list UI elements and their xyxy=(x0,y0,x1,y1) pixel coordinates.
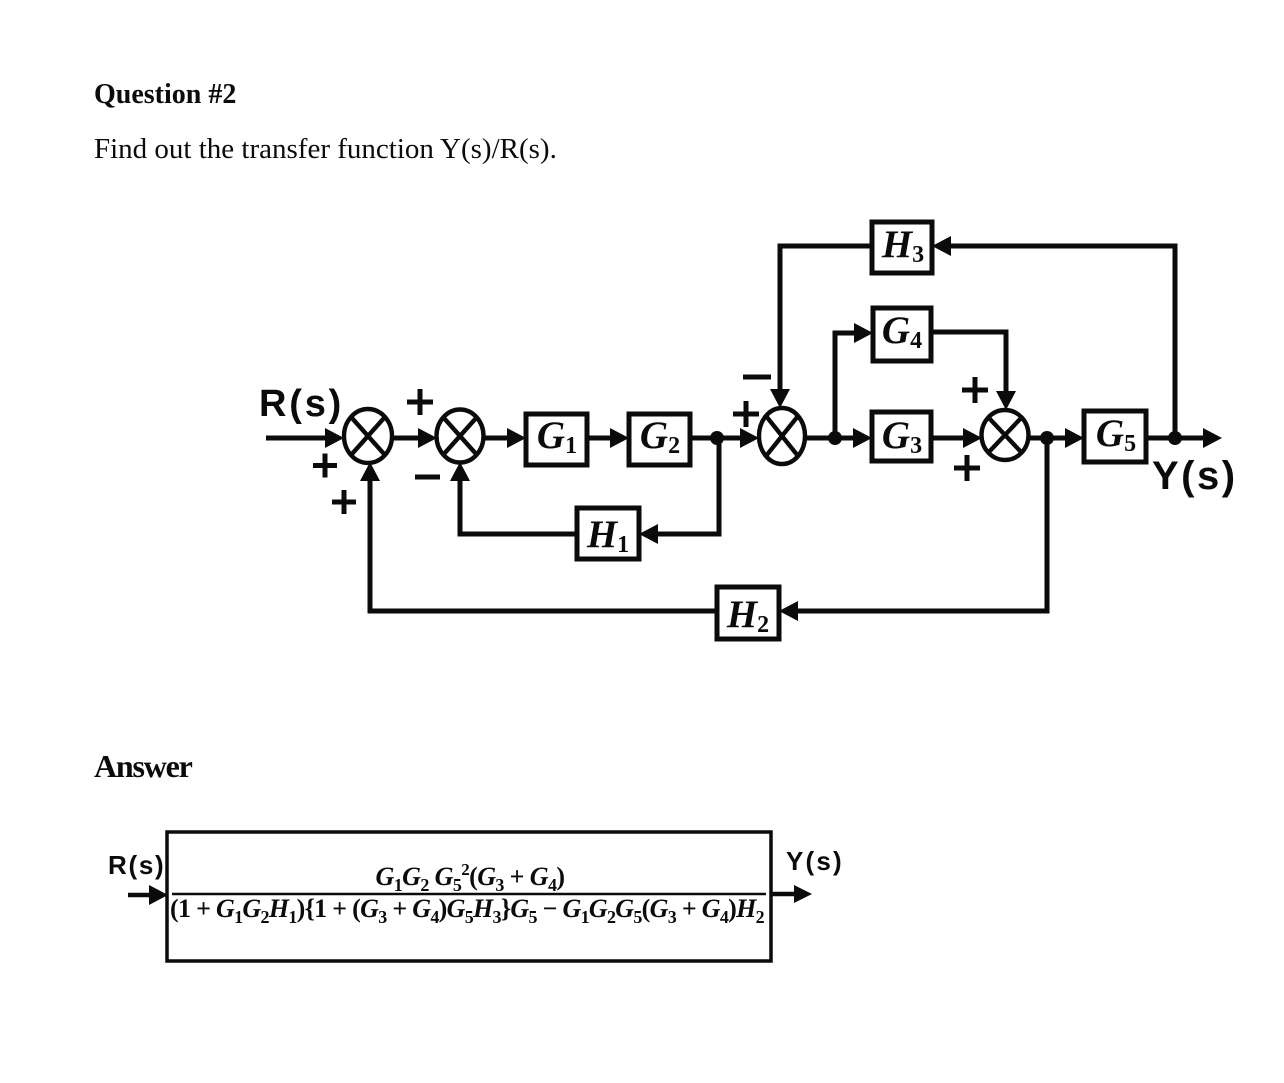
wire G5 to output xyxy=(1146,428,1222,448)
sign plus (G4 input into S4) xyxy=(962,377,988,403)
sign minus (H1 feedback into S2) xyxy=(415,475,440,480)
svg-text:Y(s): Y(s) xyxy=(1152,454,1238,498)
svg-text:Find out the transfer function: Find out the transfer function Y(s)/R(s)… xyxy=(94,133,557,165)
sign plus (G3 input into S4) xyxy=(954,455,980,481)
block G2 xyxy=(629,414,690,465)
sign plus (S1 output into S2) xyxy=(407,389,433,415)
block H3 xyxy=(872,222,932,273)
wire input to summing junction S1 xyxy=(266,428,344,448)
node after S4 xyxy=(1040,431,1054,445)
block G4 xyxy=(873,308,931,361)
svg-text:Question #2: Question #2 xyxy=(94,79,236,110)
wire G2 to S3 xyxy=(690,428,759,448)
wire H1 output up into S2 xyxy=(450,462,577,534)
svg-text:Answer: Answer xyxy=(94,748,193,784)
wire S2 to G1 xyxy=(484,428,526,448)
block G5 xyxy=(1084,411,1146,462)
wire S4 to G5 xyxy=(1028,428,1084,448)
node after S3 xyxy=(828,431,842,445)
sign minus (H3 feedback into S3) xyxy=(743,375,771,380)
answer transfer-function box xyxy=(167,832,771,961)
wire node after G2 down into H1 xyxy=(639,438,719,544)
wire S3 to G3 xyxy=(805,428,872,448)
block H2 xyxy=(717,587,779,639)
block G1 xyxy=(526,414,587,465)
fraction bar xyxy=(172,893,766,896)
answer output arrow xyxy=(772,885,812,903)
summing junction S3 xyxy=(759,408,805,464)
node after G2 xyxy=(710,431,724,445)
wire H3 output down into S3 xyxy=(770,246,872,408)
sign plus (H2 feedback into S1) xyxy=(332,490,356,514)
wire node after G5 up and left into H3 xyxy=(932,236,1175,438)
wire G4 output down into S4 xyxy=(931,332,1016,410)
svg-text:G1G2 G52(G3 + G4): G1G2 G52(G3 + G4) xyxy=(376,860,565,895)
block H1 xyxy=(577,508,639,559)
answer input arrow xyxy=(128,885,168,905)
sign plus (R input of S1) xyxy=(313,454,337,478)
svg-text:R(s): R(s) xyxy=(108,850,165,880)
wire G1 to G2 xyxy=(587,428,629,448)
node after G5 xyxy=(1168,431,1182,445)
wire G3 to S4 xyxy=(931,428,982,448)
sign plus (left input of S3) xyxy=(733,401,759,427)
summing junction S4 xyxy=(982,410,1029,460)
summing junction S1 xyxy=(344,409,392,463)
svg-text:Y(s): Y(s) xyxy=(786,846,844,876)
wire S1 to S2 xyxy=(392,428,437,448)
summing junction S2 xyxy=(437,410,484,463)
wire node after S4 down into H2 xyxy=(779,438,1047,621)
svg-text:R(s): R(s) xyxy=(259,383,344,425)
block G3 xyxy=(872,412,931,461)
wire node after S3 up into G4 xyxy=(835,323,873,438)
wire H2 output up into S1 xyxy=(360,462,717,611)
